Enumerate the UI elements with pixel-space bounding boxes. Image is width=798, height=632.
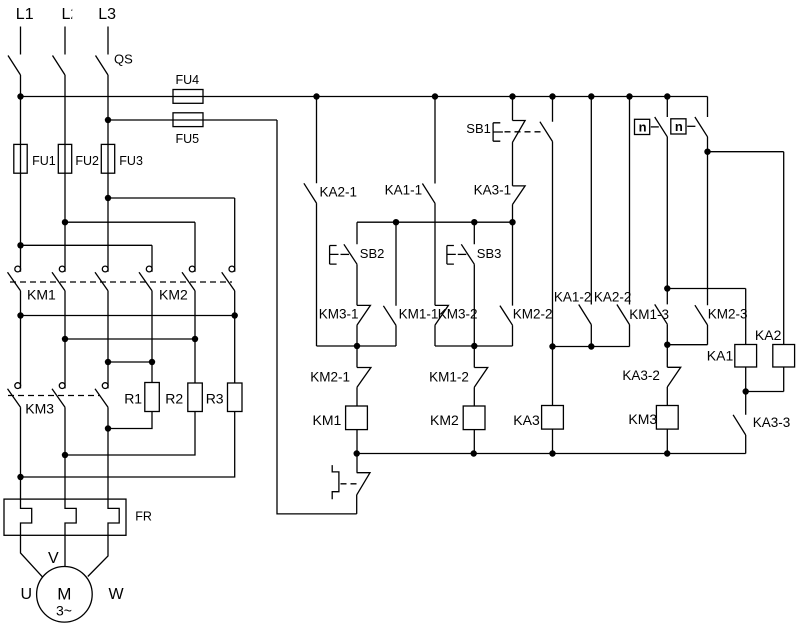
svg-text:KM3-1: KM3-1 xyxy=(319,306,359,321)
svg-text:KA3: KA3 xyxy=(513,412,540,428)
svg-text:KM2-1: KM2-1 xyxy=(310,370,350,385)
svg-text:SB2: SB2 xyxy=(360,246,385,261)
svg-text:SB1: SB1 xyxy=(466,121,491,136)
svg-text:FU4: FU4 xyxy=(176,73,200,87)
svg-text:KM1-2: KM1-2 xyxy=(429,370,469,385)
svg-text:KM3: KM3 xyxy=(628,411,657,427)
svg-text:FU3: FU3 xyxy=(119,154,143,168)
svg-text:KA2-1: KA2-1 xyxy=(320,184,358,199)
svg-text:V: V xyxy=(48,550,59,567)
svg-text:QS: QS xyxy=(114,52,133,67)
svg-text:FU1: FU1 xyxy=(32,154,56,168)
svg-text:R1: R1 xyxy=(124,390,142,406)
svg-text:KM1-1: KM1-1 xyxy=(399,306,439,321)
svg-text:n: n xyxy=(675,119,683,134)
svg-text:L1: L1 xyxy=(16,6,34,23)
svg-text:L3: L3 xyxy=(98,6,116,23)
svg-text:KA2: KA2 xyxy=(755,327,782,343)
svg-text:FU5: FU5 xyxy=(176,132,200,146)
svg-text:KM1-3: KM1-3 xyxy=(629,307,669,322)
svg-text:KA2-2: KA2-2 xyxy=(594,289,632,304)
svg-text:U: U xyxy=(21,586,33,603)
svg-text:KA1-2: KA1-2 xyxy=(554,289,592,304)
svg-text:KM3-2: KM3-2 xyxy=(438,306,478,321)
svg-text:KM2: KM2 xyxy=(430,412,459,428)
svg-text:R2: R2 xyxy=(165,390,183,406)
svg-text:SB3: SB3 xyxy=(477,246,502,261)
svg-text:KM1: KM1 xyxy=(27,287,56,303)
svg-text:KA1: KA1 xyxy=(707,347,734,363)
svg-text:KA3-2: KA3-2 xyxy=(622,368,660,383)
svg-text:KA1-1: KA1-1 xyxy=(385,183,423,198)
svg-text:n: n xyxy=(639,120,647,135)
svg-text:M: M xyxy=(57,585,71,604)
svg-text:KM2: KM2 xyxy=(159,287,188,303)
svg-text:FR: FR xyxy=(135,510,152,524)
svg-text:3~: 3~ xyxy=(56,603,72,619)
svg-text:W: W xyxy=(109,586,125,603)
svg-text:KA3-3: KA3-3 xyxy=(753,415,791,430)
svg-text:KA3-1: KA3-1 xyxy=(474,183,512,198)
svg-text:R3: R3 xyxy=(206,390,224,406)
svg-text:KM2-2: KM2-2 xyxy=(513,306,553,321)
svg-text:FU2: FU2 xyxy=(75,154,99,168)
svg-text:KM3: KM3 xyxy=(25,400,54,416)
svg-text:KM1: KM1 xyxy=(313,412,342,428)
svg-text:KM2-3: KM2-3 xyxy=(708,306,748,321)
